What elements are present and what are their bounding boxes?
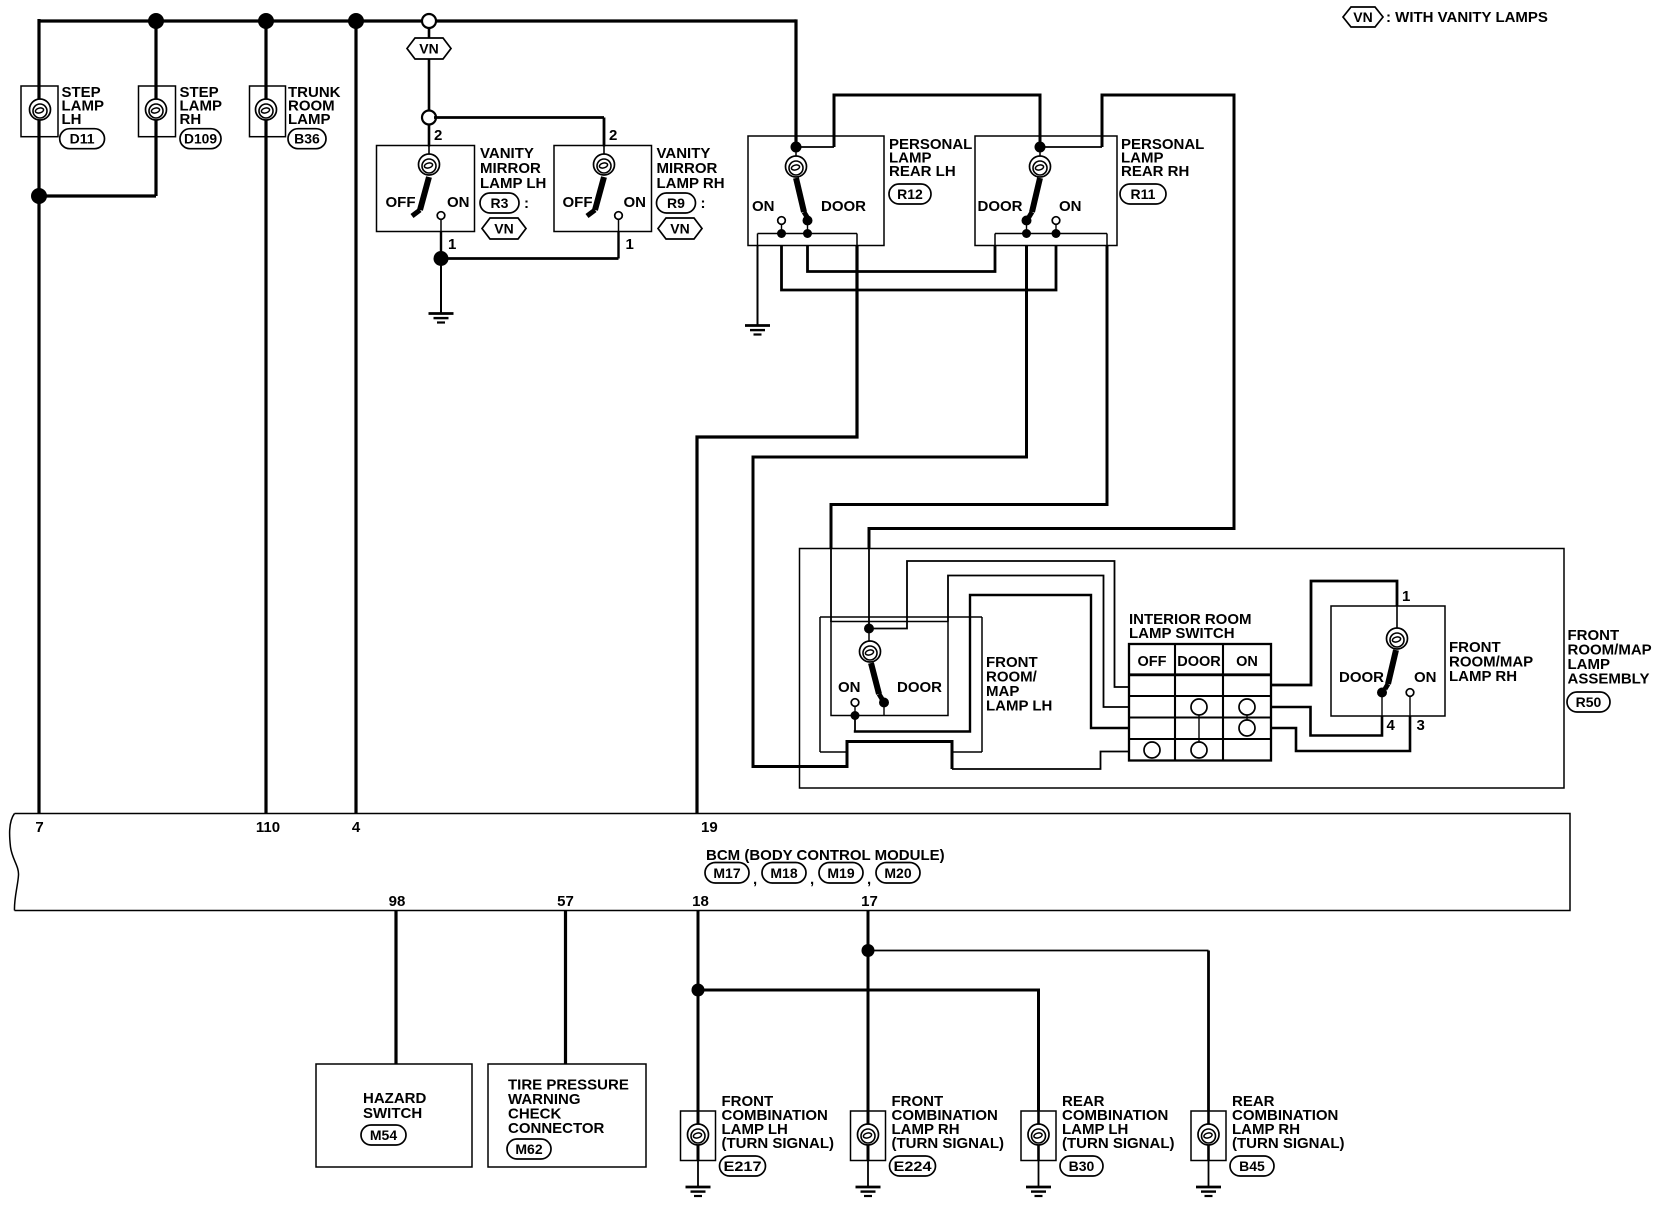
junction rail dots — [148, 13, 164, 29]
svg-text:2: 2 — [609, 127, 617, 144]
wire ON to interior switch band3 — [854, 716, 856, 732]
connector E224 — [890, 1156, 936, 1176]
svg-text:: WITH VANITY LAMPS: : WITH VANITY LAMPS — [1386, 9, 1548, 26]
wire B personal RH DOOR to interior switch — [753, 246, 1027, 770]
lamp symbol vanity RH — [594, 154, 615, 175]
svg-text:98: 98 — [389, 893, 406, 910]
svg-text:18: 18 — [692, 893, 709, 910]
wire top power rail — [39, 19, 796, 22]
connector M20 — [876, 863, 920, 884]
junction ON front room LH — [851, 711, 860, 720]
wire riser trunk room lamp to BCM pin 110 — [264, 21, 267, 814]
wire branch to rear combination lamp LH — [698, 990, 1039, 1111]
wire vanity RH pin 1 — [617, 232, 619, 259]
B30 combination lamp box — [1021, 1111, 1056, 1161]
svg-text:LH: LH — [62, 111, 82, 128]
step lamp RH D109 box — [139, 86, 176, 137]
wire VN hexagon to branch circle — [428, 59, 431, 118]
svg-text:DOOR: DOOR — [1339, 669, 1384, 686]
junction strip dots personal LH — [777, 229, 786, 238]
contact ON vanity RH — [615, 212, 623, 220]
front room/map lamp RH box — [1331, 606, 1445, 716]
svg-text:REAR RH: REAR RH — [1121, 163, 1189, 180]
svg-text:B30: B30 — [1069, 1158, 1095, 1174]
svg-text:LAMP LH: LAMP LH — [480, 175, 546, 192]
svg-text:ON: ON — [1414, 669, 1437, 686]
svg-text:LAMP RH: LAMP RH — [1449, 668, 1517, 685]
svg-text:7: 7 — [35, 819, 43, 836]
step lamp LH D11 box — [21, 86, 58, 137]
svg-text:ON: ON — [447, 194, 470, 211]
svg-text:LAMP LH: LAMP LH — [986, 698, 1052, 715]
lamp symbol E217 — [688, 1124, 709, 1145]
connector R12 — [889, 184, 931, 204]
svg-text:CONNECTOR: CONNECTOR — [508, 1120, 605, 1137]
vanity mirror lamp RH box — [554, 146, 652, 232]
lamp symbol personal RH — [1030, 156, 1051, 177]
svg-text:ON: ON — [838, 679, 861, 696]
trunk room lamp B36 box — [250, 86, 286, 137]
connector M62 — [507, 1139, 551, 1159]
svg-text:LAMP: LAMP — [288, 111, 331, 128]
wire pin 3 to band3 — [1409, 696, 1411, 716]
connector B36 — [288, 129, 326, 149]
junction power personal RH — [1035, 142, 1046, 153]
lamp symbol front room RH — [1387, 628, 1408, 649]
svg-text:19: 19 — [701, 819, 718, 836]
front room/map lamp assembly R50 box — [800, 549, 1565, 789]
wire vanity ground stem — [440, 259, 442, 314]
svg-text:RH: RH — [180, 111, 202, 128]
option symbol VN hexagon top — [407, 38, 451, 59]
ground B45 — [1208, 1161, 1210, 1187]
lamp stem front room RH — [1396, 606, 1398, 628]
wire lamp stem vanity RH — [603, 146, 605, 157]
svg-text:M19: M19 — [827, 865, 854, 881]
ground E224 — [867, 1161, 869, 1187]
lamp symbol front room LH — [860, 641, 881, 662]
contact lever personal RH — [1022, 216, 1032, 226]
lamp symbol personal LH — [786, 156, 807, 177]
connector M54 — [361, 1125, 406, 1145]
switch lever personal RH — [1029, 178, 1040, 217]
svg-text:DOOR: DOOR — [1177, 654, 1221, 670]
svg-text::: : — [701, 195, 706, 212]
lamp stem front room LH — [868, 633, 870, 641]
lamp symbol B30 — [1028, 1124, 1049, 1145]
junction pin 17 branch — [862, 944, 875, 957]
wire step lamp RH to LH junction — [39, 194, 156, 197]
svg-text:M20: M20 — [884, 865, 911, 881]
svg-text:D109: D109 — [184, 131, 217, 147]
svg-text:DOOR: DOOR — [821, 198, 866, 215]
wire DOOR interconnect personal lamps — [808, 246, 996, 272]
svg-text:M54: M54 — [370, 1127, 397, 1143]
svg-text:E224: E224 — [894, 1158, 932, 1174]
svg-text:,: , — [753, 871, 757, 888]
svg-text:ASSEMBLY: ASSEMBLY — [1568, 671, 1650, 688]
wire personal LH ground stem — [757, 246, 759, 326]
svg-text:OFF: OFF — [386, 194, 416, 211]
switch contact links — [1198, 707, 1200, 750]
contact ON personal LH — [778, 217, 786, 225]
node open circle on rail — [422, 14, 436, 28]
lamp symbol step lamp LH — [30, 99, 51, 120]
wire D power feed to front room lamp LH — [869, 529, 1236, 549]
ground vanity lamps — [429, 314, 454, 323]
wire BCM pin 17 to front combination lamp RH — [867, 911, 870, 1161]
BCM body control module box — [15, 814, 1571, 911]
svg-text:ON: ON — [624, 194, 647, 211]
wire vanity LH pin 2 — [428, 124, 431, 147]
svg-text:(TURN SIGNAL): (TURN SIGNAL) — [1062, 1135, 1175, 1152]
personal lamp rear RH box — [975, 136, 1117, 246]
connector strip personal LH — [758, 233, 858, 235]
svg-text:B45: B45 — [1239, 1158, 1265, 1174]
svg-text:17: 17 — [861, 893, 878, 910]
wire vanity feed from rail — [428, 21, 431, 38]
connector D11 — [60, 129, 105, 149]
junction pin 18 branch — [692, 984, 705, 997]
svg-text:BCM (BODY CONTROL MODULE): BCM (BODY CONTROL MODULE) — [706, 847, 945, 864]
ground B30 — [1038, 1161, 1040, 1187]
option symbol VN vanity RH — [658, 218, 702, 239]
connector M19 — [819, 863, 863, 884]
connector R50 — [1567, 692, 1610, 712]
contact lever personal LH — [803, 216, 813, 226]
connector R9 — [657, 193, 696, 213]
connector M17 — [705, 863, 749, 884]
wire BCM pin 18 to front combination lamp LH — [697, 911, 700, 1161]
svg-text:3: 3 — [1417, 717, 1425, 734]
wire vanity LH pin 1 — [440, 232, 442, 259]
legend VN hexagon — [1343, 7, 1383, 27]
wire power link LH to RH personal — [796, 146, 834, 148]
wire branch to interior switch band1 — [869, 561, 1129, 687]
junction strip dots personal RH — [1022, 229, 1031, 238]
wire right riser to R50 — [1233, 95, 1236, 530]
junction step lamps — [31, 188, 47, 204]
lamp symbol B45 — [1198, 1124, 1219, 1145]
svg-text:R3: R3 — [491, 195, 509, 211]
connector R3 — [480, 193, 519, 213]
interior room lamp switch grid — [1129, 644, 1271, 761]
lamp stem personal RH — [1039, 151, 1041, 157]
svg-text:REAR LH: REAR LH — [889, 163, 956, 180]
svg-text:R9: R9 — [667, 195, 685, 211]
ground E217 — [697, 1161, 699, 1187]
lamp stem personal LH — [795, 151, 797, 157]
front room/map lamp LH inner box — [831, 622, 948, 716]
svg-text:R50: R50 — [1576, 694, 1602, 710]
svg-text:4: 4 — [1387, 717, 1396, 734]
contact ON front room RH — [1406, 689, 1414, 697]
wire branch to rear combination lamp RH — [868, 950, 1209, 952]
vanity mirror lamp LH box — [377, 146, 475, 232]
wire BCM pin 98 to hazard switch — [394, 911, 397, 1065]
lamp symbol vanity LH — [419, 154, 440, 175]
wire rail drop to BCM pin 4 — [354, 21, 357, 814]
svg-text:2: 2 — [434, 127, 442, 144]
connector B30 — [1060, 1156, 1103, 1176]
svg-text:VN: VN — [494, 221, 513, 237]
svg-text:R12: R12 — [897, 186, 923, 202]
wire vanity ground link — [441, 257, 619, 260]
svg-text:1: 1 — [1402, 588, 1410, 605]
svg-text:OFF: OFF — [563, 194, 593, 211]
tire pressure warning check connector box — [488, 1064, 646, 1167]
wire A personal LH to BCM pin 19 — [697, 246, 857, 814]
lamp symbol E224 — [858, 1124, 879, 1145]
junction power front room LH — [864, 624, 874, 634]
wire power personal RH to right riser — [1040, 146, 1102, 148]
svg-text:(TURN SIGNAL): (TURN SIGNAL) — [722, 1135, 835, 1152]
svg-text:(TURN SIGNAL): (TURN SIGNAL) — [892, 1135, 1005, 1152]
svg-text:E217: E217 — [724, 1158, 762, 1174]
svg-text:R11: R11 — [1131, 186, 1156, 202]
contact ON personal RH — [1052, 217, 1060, 225]
svg-text:,: , — [810, 871, 814, 888]
wire BCM pin 57 to tire pressure connector — [564, 911, 567, 1065]
connector E217 — [720, 1156, 766, 1176]
svg-text:DOOR: DOOR — [897, 679, 942, 696]
svg-text:ON: ON — [1059, 198, 1082, 215]
switch lever vanity LH — [412, 177, 429, 216]
svg-text:VN: VN — [670, 221, 689, 237]
connector D109 — [180, 129, 221, 149]
ground personal lamps — [745, 326, 770, 335]
wire lamp stem vanity LH — [428, 146, 430, 157]
svg-text:M62: M62 — [515, 1141, 542, 1157]
svg-text:D11: D11 — [70, 131, 95, 147]
svg-text:M18: M18 — [770, 865, 797, 881]
svg-text:M17: M17 — [713, 865, 740, 881]
option symbol VN vanity LH — [482, 218, 526, 239]
svg-text::: : — [524, 195, 529, 212]
E224 combination lamp box — [851, 1111, 886, 1161]
switch contacts circles — [1191, 699, 1207, 715]
E217 combination lamp box — [681, 1111, 716, 1161]
svg-text:ON: ON — [752, 198, 775, 215]
connector R11 — [1120, 184, 1166, 204]
contact ON front room LH — [851, 699, 859, 707]
contact ON vanity LH — [437, 212, 445, 220]
wire band1 to front room RH pin 1 — [1271, 581, 1397, 685]
svg-text:VN: VN — [419, 41, 438, 57]
wire pin 4 to band2 — [1381, 697, 1383, 716]
svg-text:1: 1 — [448, 236, 456, 253]
connector B45 — [1230, 1156, 1274, 1176]
wire riser step lamp RH — [154, 21, 157, 196]
junction power personal LH — [791, 142, 802, 153]
svg-text:VN: VN — [1353, 9, 1372, 25]
node open circle vanity branch — [422, 111, 436, 125]
personal lamp rear LH box — [748, 136, 884, 246]
svg-text:DOOR: DOOR — [978, 198, 1023, 215]
svg-text:LAMP SWITCH: LAMP SWITCH — [1129, 625, 1235, 642]
svg-text:B36: B36 — [294, 131, 320, 147]
wire ON interconnect personal lamps — [782, 246, 1057, 291]
svg-text:57: 57 — [557, 893, 574, 910]
junction vanity ground — [434, 251, 449, 266]
switch lever front room RH — [1385, 650, 1396, 689]
lamp symbol step lamp RH — [146, 99, 167, 120]
wire vanity RH branch — [434, 116, 604, 119]
svg-text:4: 4 — [352, 819, 361, 836]
connector strip personal RH — [995, 233, 1107, 235]
svg-text:110: 110 — [256, 819, 280, 836]
svg-text:1: 1 — [626, 236, 634, 253]
switch lever personal LH — [796, 178, 807, 217]
connector M18 — [762, 863, 806, 884]
contact lever front room LH — [879, 698, 889, 708]
svg-text:OFF: OFF — [1138, 654, 1167, 670]
svg-text:SWITCH: SWITCH — [363, 1105, 422, 1122]
svg-text:(TURN SIGNAL): (TURN SIGNAL) — [1232, 1135, 1345, 1152]
svg-text:ON: ON — [1236, 654, 1258, 670]
B45 combination lamp box — [1191, 1111, 1226, 1161]
hazard switch box — [316, 1064, 472, 1167]
wire DOOR riser to interior switch band2 — [948, 576, 1129, 708]
wire C personal RH connector to interior switch — [831, 246, 1107, 549]
wire riser step lamp LH to BCM pin 7 — [37, 19, 40, 814]
contact lever front room RH — [1377, 688, 1387, 698]
front room/map lamp LH outer box — [820, 616, 982, 618]
switch lever vanity RH — [587, 177, 604, 216]
wire power into personal LH — [794, 19, 797, 147]
svg-text:,: , — [867, 871, 871, 888]
BCM torn left edge — [10, 814, 19, 911]
svg-text:LAMP RH: LAMP RH — [657, 175, 725, 192]
switch lever front room LH — [871, 663, 882, 699]
lamp symbol trunk room lamp — [256, 99, 277, 120]
